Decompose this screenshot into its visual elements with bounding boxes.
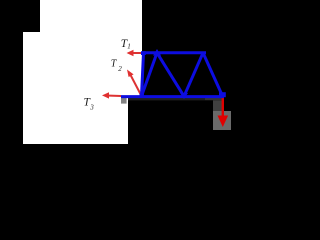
- shadow band under bottom chord: [128, 98, 224, 101]
- support block left (grey): [121, 98, 127, 104]
- svg-text:1: 1: [127, 43, 131, 51]
- wire: red arrow shaft T2: [130, 73, 142, 96]
- node E marker (valley): [180, 93, 188, 99]
- truss diagonal A-C: [142, 53, 158, 97]
- node C marker (apex): [153, 49, 161, 56]
- node A marker: [140, 94, 144, 98]
- support block right upper (dark grey): [213, 99, 224, 113]
- wire: red down arrow shaft at right support: [222, 96, 224, 119]
- arrowhead T3: [102, 92, 109, 98]
- truss diagonal D-F: [203, 53, 223, 96]
- svg-text:3: 3: [89, 104, 94, 112]
- wire: red arrow shaft T3: [106, 95, 121, 98]
- arrowhead down arrow: [218, 116, 229, 128]
- arrowhead T2: [127, 70, 134, 78]
- node F marker: [219, 92, 226, 97]
- truss left end post: [142, 53, 144, 96]
- truss bottom chord: [121, 95, 224, 98]
- truss diagonal C-E: [157, 53, 184, 97]
- wire: red arrow shaft T1: [130, 52, 143, 54]
- node B marker: [141, 51, 146, 55]
- dark band near right support: [205, 97, 224, 101]
- truss top chord: [143, 51, 207, 54]
- support block right lower (grey): [213, 111, 231, 130]
- white paper region: [23, 0, 142, 144]
- arrowhead T1: [127, 50, 134, 56]
- svg-text:2: 2: [118, 65, 122, 73]
- truss diagonal E-D: [184, 53, 203, 97]
